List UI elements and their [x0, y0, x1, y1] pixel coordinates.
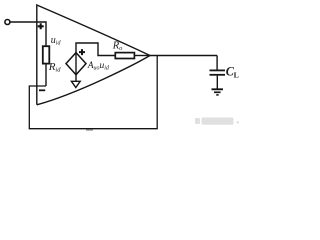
svg-text:CL: CL: [226, 65, 239, 80]
svg-text:Auouid: Auouid: [87, 61, 110, 72]
svg-text:Rid: Rid: [48, 61, 62, 74]
svg-text:uid: uid: [51, 35, 62, 47]
